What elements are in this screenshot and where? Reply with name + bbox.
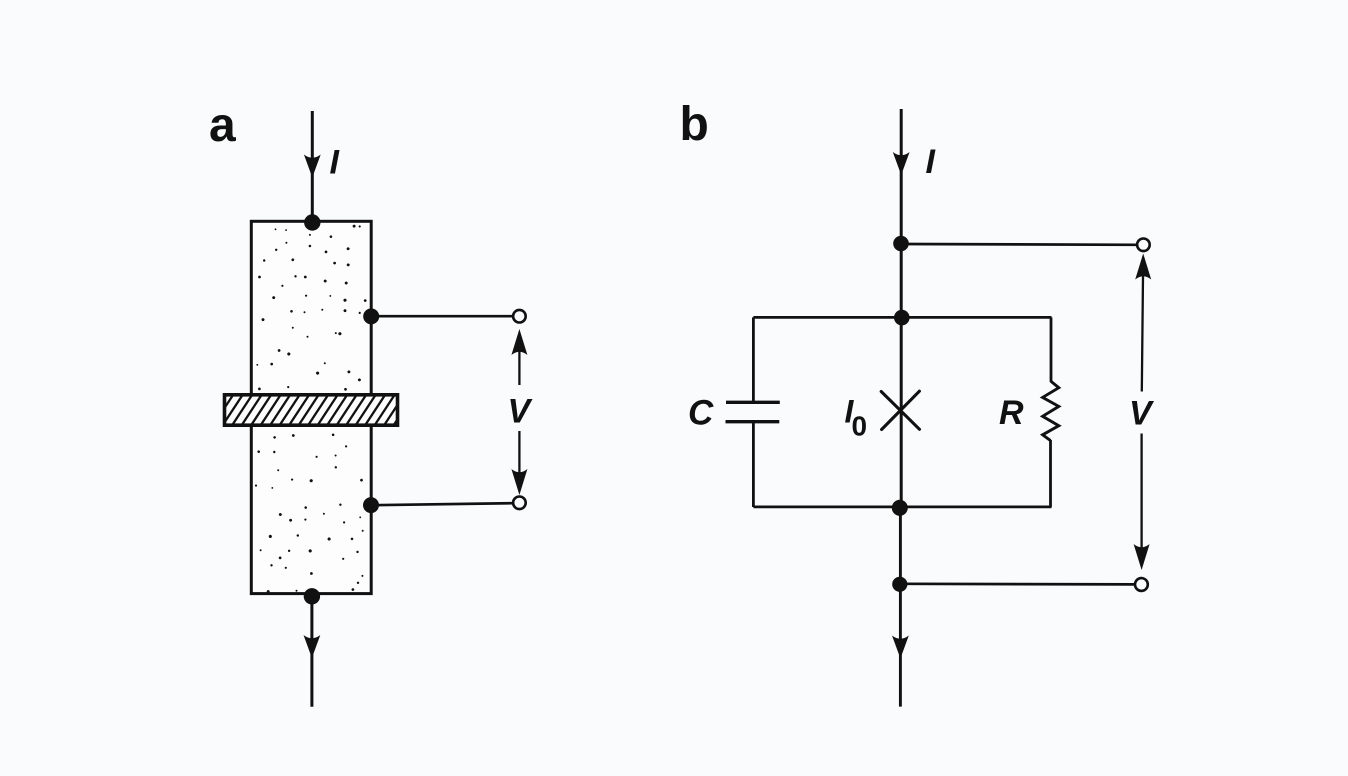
stipple texture dots — [255, 225, 367, 593]
wire: V arrow lower stem (b) — [1140, 434, 1142, 550]
arrowhead: current direction I (b) — [893, 152, 910, 175]
svg-text:I: I — [330, 144, 341, 182]
terminal: lower open circle (a) — [513, 497, 526, 510]
capacitor C plates — [726, 401, 780, 404]
wire: V arrow upper stem (b) — [1142, 276, 1143, 392]
wire: upper voltage tap (a) — [371, 315, 512, 318]
node: lower voltage tap dot (a) — [363, 497, 379, 513]
node: top contact dot (a) — [304, 214, 320, 230]
node: parallel bottom rail dot (b) — [892, 500, 908, 516]
svg-text:b: b — [680, 98, 709, 151]
arrowhead: V arrow down (b) — [1134, 544, 1150, 570]
arrowhead: V arrow up (a) — [511, 329, 527, 355]
svg-text:I: I — [926, 143, 937, 181]
arrowhead: current direction out (b) — [892, 636, 909, 659]
node: parallel top rail dot (b) — [894, 310, 910, 326]
wire: junction bus vertical (b) — [900, 243, 903, 508]
wire: V arrow upper stem (a) — [518, 351, 520, 385]
svg-text:V: V — [1129, 395, 1155, 433]
terminal: upper open circle (b) — [1137, 239, 1150, 252]
resistor R leads — [1050, 317, 1053, 382]
node: bottom tap dot (b) — [892, 577, 907, 592]
Josephson junction X symbol — [881, 391, 919, 429]
svg-text:V: V — [508, 393, 534, 431]
arrowhead: current direction I (a) — [304, 155, 321, 178]
wire: lower voltage tap (a) — [371, 503, 513, 505]
wire: bottom lead (a) — [310, 596, 313, 707]
wire: V arrow lower stem (a) — [518, 431, 520, 474]
terminal: upper open circle (a) — [513, 310, 526, 323]
capacitor C leads — [752, 317, 755, 402]
wire: parallel top rail (b) — [753, 316, 1051, 319]
svg-text:R: R — [999, 394, 1024, 432]
node: top tap dot (b) — [893, 236, 909, 252]
wire: parallel bottom rail (b) — [753, 505, 1051, 508]
node: upper voltage tap dot (a) — [363, 308, 379, 324]
svg-text:a: a — [209, 99, 236, 152]
superconducting electrode block (stippled rectangle) — [251, 221, 371, 593]
node: bottom contact dot (a) — [304, 588, 320, 604]
resistor R zigzag — [1043, 381, 1059, 440]
arrowhead: V arrow up (b) — [1135, 254, 1151, 280]
wire: bottom voltage tap (b) — [900, 582, 1134, 585]
terminal: lower open circle (b) — [1135, 578, 1148, 591]
tunnel barrier (hatched bar) — [210, 392, 416, 430]
wire: top lead (b) — [900, 109, 903, 244]
arrowhead: current direction out (a) — [304, 635, 321, 658]
wire: top voltage tap (b) — [901, 243, 1136, 247]
arrowhead: V arrow down (a) — [511, 469, 527, 495]
svg-text:0: 0 — [852, 411, 868, 442]
wire: top lead of junction (a) — [311, 111, 314, 222]
wire: bottom bus vertical (b) — [899, 507, 902, 707]
svg-text:C: C — [688, 394, 714, 433]
